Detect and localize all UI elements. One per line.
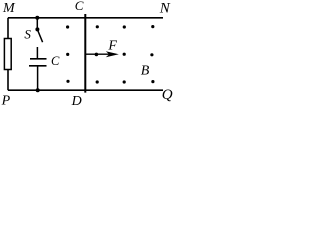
field dot r1c1	[66, 25, 69, 28]
svg-text:S: S	[24, 27, 31, 42]
svg-text:B: B	[141, 64, 150, 79]
wire bottom rail PQ	[8, 89, 163, 91]
capacitor C top plate	[30, 58, 47, 60]
node top junction	[35, 16, 39, 20]
field dot r1c2	[96, 25, 99, 28]
node bottom junction	[36, 88, 40, 92]
wire switch lead	[36, 18, 38, 30]
field dot r3c3	[123, 80, 126, 83]
bar CD	[84, 14, 86, 93]
wire capacitor bottom lead	[37, 66, 39, 90]
field dot r1c3	[123, 25, 126, 28]
svg-text:P: P	[1, 94, 11, 108]
wire left lower segment	[7, 70, 9, 91]
capacitor C bottom plate	[29, 65, 47, 67]
svg-text:Q: Q	[162, 87, 173, 103]
field dot r2c1	[66, 53, 69, 56]
node switch pivot	[35, 27, 39, 31]
field dot r2c3	[123, 53, 126, 56]
field dot r2c4	[150, 53, 153, 56]
svg-text:C: C	[51, 54, 60, 68]
resistor R (box)	[4, 39, 11, 70]
wire capacitor top lead	[36, 47, 38, 59]
wire top rail MN	[8, 17, 163, 19]
svg-text:D: D	[71, 94, 82, 108]
force arrow F	[86, 53, 110, 55]
svg-text:N: N	[159, 1, 171, 17]
svg-text:M: M	[2, 1, 16, 16]
svg-text:F: F	[107, 38, 117, 53]
svg-text:C: C	[75, 0, 84, 13]
field dot r1c4	[151, 25, 154, 28]
field dot r3c4	[151, 80, 154, 83]
field dot r3c2	[96, 80, 99, 83]
field dot r2c2 on arrow	[95, 53, 99, 57]
field dot r3c1	[66, 80, 69, 83]
switch S blade	[38, 31, 43, 43]
wire left upper segment	[7, 18, 9, 39]
